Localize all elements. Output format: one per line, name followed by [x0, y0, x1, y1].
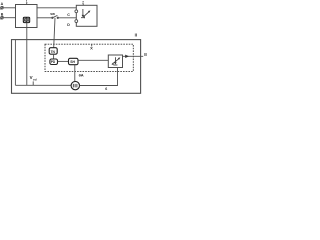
label 2 with tick [82, 0, 85, 5]
svg-text:X: X [90, 46, 93, 51]
label 1 with tick [26, 0, 29, 5]
svg-text:2: 2 [82, 0, 85, 5]
block 2 (cell unit) [76, 5, 97, 26]
symbol box inside block 1 [23, 17, 29, 22]
svg-text:SH: SH [70, 60, 75, 64]
oscillator circle [71, 81, 79, 89]
terminal A [1, 6, 4, 9]
wire switch to box2 [58, 17, 77, 19]
wire TN to PD [53, 54, 55, 59]
dashed box [45, 44, 133, 71]
node B label [1, 12, 4, 16]
symbol in detector box : diode with arrow [112, 57, 121, 65]
section label II (output) [144, 52, 146, 57]
svg-text:SW: SW [50, 12, 55, 16]
svg-text:C: C [67, 13, 70, 17]
Vout wire [15, 84, 71, 86]
svg-text:θA: θA [79, 73, 84, 78]
label theta-A [79, 73, 84, 78]
wire B to box 1 [3, 17, 15, 19]
wire A right (box1 to box2) [37, 7, 76, 9]
svg-text:PD: PD [51, 60, 56, 64]
label C [67, 13, 70, 17]
detector box [108, 55, 122, 68]
svg-text:B: B [1, 12, 4, 16]
SW label [50, 12, 55, 16]
terminal C on block2 [75, 10, 78, 13]
Vout label with tick [30, 75, 37, 85]
svg-text:od: od [33, 77, 37, 81]
block PD [50, 59, 58, 65]
block 1 (modulator unit) [16, 5, 38, 28]
label D [67, 23, 70, 27]
svg-text:6: 6 [105, 87, 107, 91]
switch SW [52, 15, 59, 18]
node A label [1, 2, 4, 6]
svg-text:D: D [67, 23, 70, 27]
section label II (top right of outer box) [135, 32, 137, 37]
wire tap down from switch to TN [54, 18, 55, 48]
outer box section III [12, 40, 141, 94]
output wire with arrow to II [123, 55, 144, 58]
svg-text:1: 1 [26, 0, 29, 4]
wire SH right to detector box [78, 59, 108, 61]
symbol in block 2 : diode with arrow [81, 9, 90, 18]
svg-text:II: II [135, 32, 137, 37]
terminal D on block2 [75, 20, 78, 23]
block SH [69, 58, 79, 64]
svg-text:A: A [1, 2, 4, 6]
wire B right to switch [37, 17, 52, 19]
label X with tick [90, 44, 93, 51]
inner feedback wire vertical left [14, 40, 16, 86]
wire from block1 symbol down [26, 23, 28, 86]
wire SH down to circle [74, 65, 76, 82]
wire circle right and up to detector [80, 68, 118, 86]
label 6 on bottom wire [105, 87, 107, 91]
terminal B [1, 16, 4, 19]
svg-text:TN: TN [51, 50, 56, 54]
wire A to box 1 [3, 7, 15, 9]
wire PD to SH [58, 60, 69, 62]
svg-text:II: II [144, 52, 146, 57]
block TN [49, 48, 57, 55]
